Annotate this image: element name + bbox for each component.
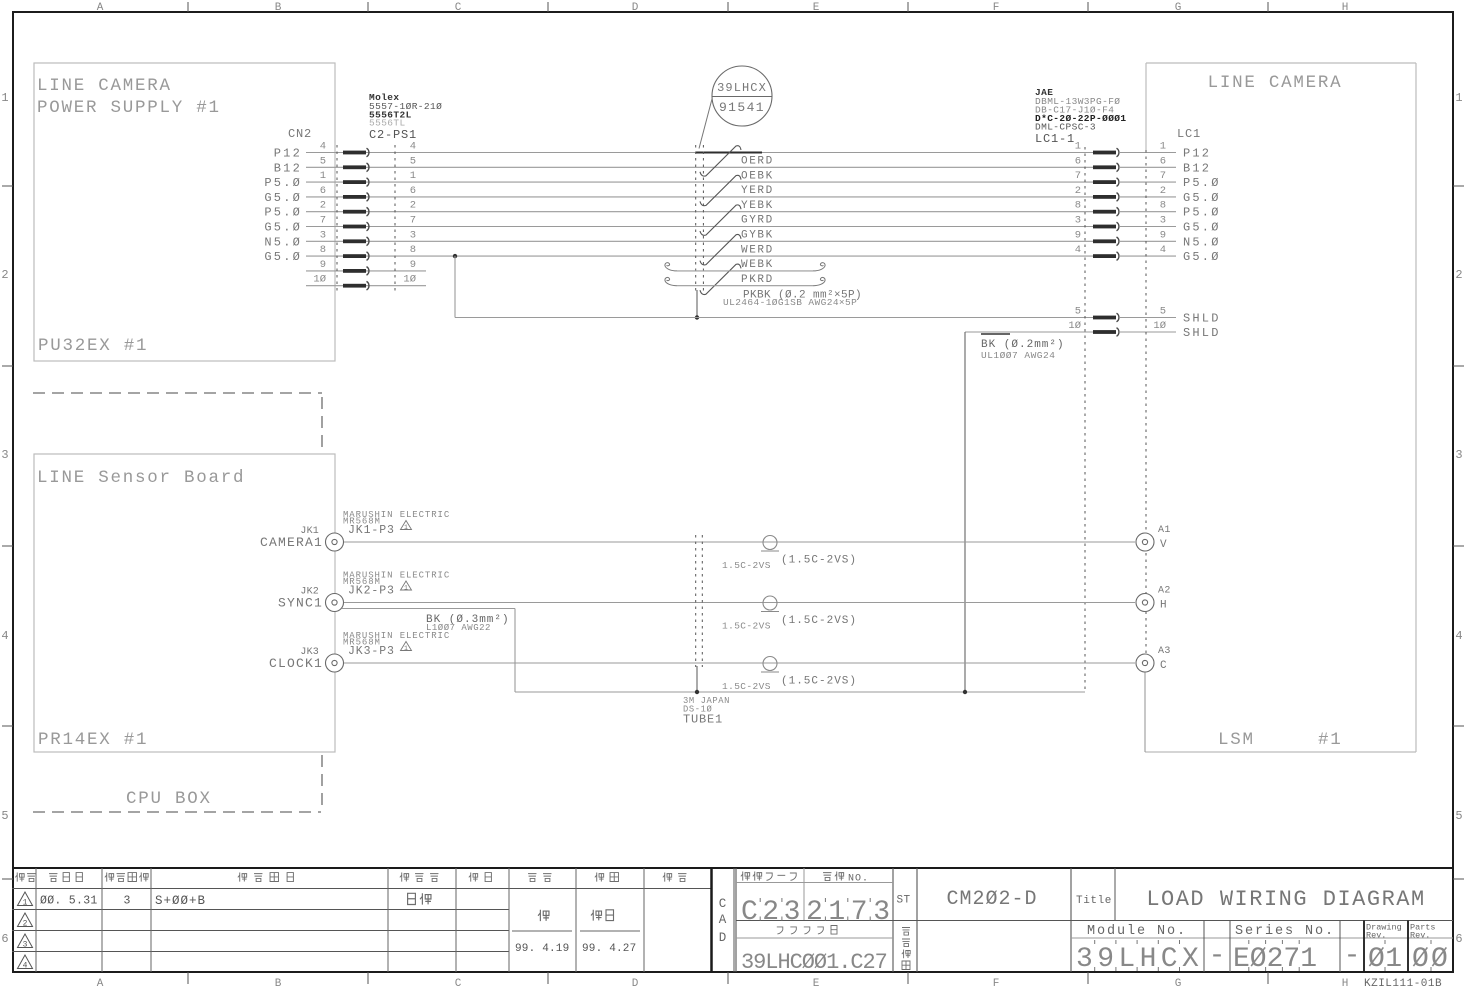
box LINE CAMERA POWER SUPPLY #1 (PU32EX): [34, 63, 335, 361]
field CM202-D id: [946, 888, 1037, 911]
title block revision table grid: [12, 868, 1453, 972]
svg-text:4: 4: [1, 629, 8, 643]
svg-text:B: B: [275, 2, 282, 14]
svg-text:(1.5C-2VS): (1.5C-2VS): [781, 555, 857, 567]
svg-text:5: 5: [410, 155, 416, 167]
svg-text:1Ø: 1Ø: [313, 274, 326, 286]
svg-text:GYRD: GYRD: [741, 215, 774, 227]
twisted pair mark 2: [700, 175, 741, 205]
svg-text:N5.Ø: N5.Ø: [1183, 235, 1221, 249]
wire row 8 C2-PS1 pin 8 G5.Ø: [264, 244, 1176, 264]
svg-text:C: C: [719, 897, 727, 911]
svg-text:2: 2: [1455, 268, 1462, 282]
twisted pair mark 5: [700, 264, 741, 294]
svg-text:G: G: [1175, 978, 1182, 988]
svg-text:S+ØØ+B: S+ØØ+B: [155, 894, 206, 908]
cable emphasis segment on wire 1: [696, 152, 762, 154]
svg-text:PKRD: PKRD: [741, 274, 774, 286]
connector C2-PS1 part labels (Molex): [369, 92, 442, 142]
wire row 6 C2-PS1 pin 7 G5.Ø: [264, 215, 1176, 235]
svg-text:P5.Ø: P5.Ø: [264, 206, 302, 220]
svg-text:2: 2: [410, 200, 416, 212]
coax connector A2 H: [1136, 586, 1171, 612]
svg-text:PU32EX #1: PU32EX #1: [38, 336, 148, 356]
svg-text:A: A: [719, 913, 727, 927]
svg-text:7: 7: [1160, 170, 1166, 182]
svg-text:D: D: [632, 2, 639, 14]
svg-text:7: 7: [320, 215, 326, 227]
svg-text:CPU BOX: CPU BOX: [126, 789, 212, 809]
svg-text:4: 4: [410, 141, 416, 153]
svg-text:91541: 91541: [719, 100, 765, 115]
svg-text:5: 5: [320, 155, 326, 167]
svg-text:C: C: [455, 2, 462, 14]
svg-text:8: 8: [410, 244, 416, 256]
balloon 39LHCX/91541 cable callout: [699, 66, 772, 149]
svg-text:1Ø: 1Ø: [1068, 320, 1081, 332]
svg-text:6: 6: [410, 185, 416, 197]
cable jacket dashed lines (upper): [696, 145, 704, 292]
svg-text:3: 3: [1, 448, 8, 462]
svg-text:SHLD: SHLD: [1183, 326, 1221, 340]
svg-text:2: 2: [23, 920, 28, 929]
svg-text:6: 6: [1075, 155, 1081, 167]
svg-text:LINE CAMERA: LINE CAMERA: [37, 76, 172, 96]
svg-text:99. 4.19: 99. 4.19: [515, 943, 569, 955]
svg-text:LINE Sensor Board: LINE Sensor Board: [37, 468, 245, 488]
revision markers (triangles 1-4): [18, 892, 33, 971]
form number KZIL111-01B: [1364, 978, 1442, 988]
svg-text:A1: A1: [1158, 525, 1171, 536]
svg-text:LC1-1: LC1-1: [1035, 132, 1075, 146]
svg-text:1: 1: [1075, 141, 1081, 153]
svg-text:5: 5: [1075, 306, 1081, 318]
svg-text:Module No.: Module No.: [1087, 924, 1187, 939]
svg-text:P12: P12: [274, 147, 302, 161]
svg-text:A2: A2: [1158, 586, 1171, 597]
unconnected wire PKBK span: [665, 277, 825, 285]
svg-text:ØØ. 5.31: ØØ. 5.31: [40, 895, 98, 908]
svg-text:Series No.: Series No.: [1235, 924, 1335, 939]
svg-text:1: 1: [23, 899, 28, 908]
svg-text:CM2Ø2-D: CM2Ø2-D: [946, 888, 1037, 911]
svg-text:ST: ST: [896, 895, 910, 907]
svg-text:(1.5C-2VS): (1.5C-2VS): [781, 676, 857, 688]
dash separator 1: [1209, 941, 1226, 972]
svg-text:UL2464-1ØG1SB AWG24×5P: UL2464-1ØG1SB AWG24×5P: [723, 297, 857, 308]
drawing rev 01: [1368, 940, 1402, 975]
LC1 pin 2 G5.Ø: [1075, 185, 1221, 205]
svg-text:1: 1: [1, 91, 8, 105]
shield ground wire from JK2: [342, 609, 1085, 693]
svg-text:4: 4: [1075, 244, 1081, 256]
svg-text:9: 9: [1075, 229, 1081, 241]
svg-text:LINE CAMERA: LINE CAMERA: [1208, 73, 1343, 93]
svg-text:WEBK: WEBK: [741, 259, 774, 271]
svg-text:TUBE1: TUBE1: [683, 713, 723, 727]
svg-text:JK1-P3: JK1-P3: [348, 524, 395, 537]
coax connector JK1 CAMERA1: [260, 510, 1135, 551]
series number E0271: [1233, 940, 1317, 975]
svg-text:SYNC1: SYNC1: [278, 596, 323, 611]
svg-text:9: 9: [410, 259, 416, 271]
parts rev 00: [1412, 940, 1450, 975]
LC1 pin 9 N5.Ø: [1075, 229, 1221, 249]
svg-text:5: 5: [1455, 809, 1462, 823]
svg-text:6: 6: [1, 932, 8, 946]
svg-text:C: C: [455, 978, 462, 988]
kanri number C232173: [741, 897, 896, 928]
svg-text:WERD: WERD: [741, 244, 774, 256]
svg-text:1.5C-2VS: 1.5C-2VS: [722, 681, 771, 692]
svg-text:5: 5: [1160, 306, 1166, 318]
svg-text:CLOCK1: CLOCK1: [269, 656, 323, 671]
svg-text:3: 3: [1075, 215, 1081, 227]
svg-text:CAMERA1: CAMERA1: [260, 535, 323, 550]
svg-text:1Ø: 1Ø: [1153, 320, 1166, 332]
svg-text:L1ØØ7 AWG22: L1ØØ7 AWG22: [426, 623, 491, 633]
svg-text:-: -: [1344, 941, 1361, 972]
svg-text:H: H: [1342, 978, 1349, 988]
CPU BOX dashed outline: [33, 393, 322, 812]
svg-text:1: 1: [404, 584, 408, 591]
svg-text:(1.5C-2VS): (1.5C-2VS): [781, 615, 857, 627]
Title label: [1076, 895, 1112, 907]
wire SHLD pin10 BK drain: [965, 320, 1221, 692]
svg-text:EØ271: EØ271: [1233, 944, 1317, 975]
svg-text:39LHCX: 39LHCX: [717, 81, 767, 95]
wire row 10 C2-PS1 pin 1Ø nc: [306, 274, 426, 290]
svg-text:1: 1: [320, 170, 326, 182]
cable jacket dashed lines (lower): [696, 535, 703, 667]
svg-text:P5.Ø: P5.Ø: [1183, 176, 1221, 190]
svg-text:2: 2: [320, 200, 326, 212]
svg-text:7: 7: [410, 215, 416, 227]
box LINE Sensor Board (PR14EX): [34, 454, 335, 752]
C2-PS1 housing dashed boundary: [337, 145, 395, 293]
connector LC1 label: [1177, 127, 1201, 141]
svg-text:2: 2: [1075, 185, 1081, 197]
svg-text:LOAD WIRING DIAGRAM: LOAD WIRING DIAGRAM: [1146, 887, 1425, 912]
wire row 9 C2-PS1 pin 9 nc: [306, 259, 426, 275]
svg-text:G5.Ø: G5.Ø: [264, 250, 302, 264]
title block headers (kanji): [15, 873, 686, 882]
wire row 2 C2-PS1 pin 5 B12: [274, 155, 1176, 175]
svg-text:G5.Ø: G5.Ø: [264, 191, 302, 205]
svg-text:A: A: [97, 978, 104, 988]
wire SHLD pin5 with G5.0 tie: [453, 254, 1221, 326]
LC1 pin 1 P12: [1075, 141, 1212, 161]
cable shield drain wire: [695, 290, 699, 320]
svg-text:F: F: [993, 2, 1000, 14]
LC1 pin 6 B12: [1075, 155, 1212, 175]
svg-text:P5.Ø: P5.Ø: [264, 176, 302, 190]
coax cable mark 1 (1.5C-2VS): [722, 536, 857, 572]
svg-text:Title: Title: [1076, 895, 1112, 907]
ST / koji-kiban column: [896, 895, 910, 970]
Drawing Rev header: [1366, 923, 1402, 941]
svg-text:A: A: [97, 2, 104, 14]
svg-text:OEBK: OEBK: [741, 170, 774, 182]
LC1 pin 3 G5.Ø: [1075, 215, 1221, 235]
svg-text:1.5C-2VS: 1.5C-2VS: [722, 560, 771, 571]
svg-text:1: 1: [1455, 91, 1462, 105]
svg-text:Rev.: Rev.: [1366, 931, 1386, 941]
wire row 3 C2-PS1 pin 1 P5.Ø: [264, 170, 1176, 190]
svg-text:SHLD: SHLD: [1183, 312, 1221, 326]
svg-text:P5.Ø: P5.Ø: [1183, 206, 1221, 220]
svg-text:6: 6: [1455, 932, 1462, 946]
header bukka-code / kanri no.: [741, 872, 869, 885]
svg-text:3: 3: [23, 941, 28, 950]
svg-text:3: 3: [124, 895, 131, 908]
svg-text:4: 4: [320, 141, 326, 153]
twisted pair mark 3: [700, 205, 741, 235]
coax cable mark 3 (1.5C-2VS): [722, 657, 857, 693]
box LINE CAMERA (right): [1145, 63, 1416, 752]
file name field: [741, 926, 887, 976]
connector CN2 label: [288, 127, 312, 141]
svg-text:N5.Ø: N5.Ø: [264, 235, 302, 249]
coax connector JK2 SYNC1: [278, 570, 1135, 611]
svg-text:G5.Ø: G5.Ø: [1183, 221, 1221, 235]
svg-text:UL1ØØ7 AWG24: UL1ØØ7 AWG24: [981, 350, 1055, 361]
wire row 4 C2-PS1 pin 6 G5.Ø: [264, 185, 1176, 205]
svg-text:LC1: LC1: [1177, 127, 1201, 141]
svg-text:B12: B12: [1183, 161, 1211, 175]
svg-text:2: 2: [1160, 185, 1166, 197]
cable wire color labels: [723, 156, 862, 309]
wire row 1 C2-PS1 pin 4 P12: [274, 141, 1176, 161]
svg-text:99. 4.27: 99. 4.27: [582, 943, 636, 955]
svg-text:H: H: [1342, 2, 1349, 14]
svg-text:8: 8: [320, 244, 326, 256]
svg-text:D: D: [632, 978, 639, 988]
svg-text:B12: B12: [274, 161, 302, 175]
svg-text:B: B: [275, 978, 282, 988]
twisted pair mark 4: [700, 234, 741, 264]
svg-text:8: 8: [1075, 200, 1081, 212]
svg-text:9: 9: [1160, 229, 1166, 241]
svg-text:NO.: NO.: [848, 874, 869, 885]
svg-text:3: 3: [410, 229, 416, 241]
coax connector JK3 CLOCK1: [269, 631, 1135, 672]
svg-text:6: 6: [1160, 155, 1166, 167]
svg-text:1: 1: [1160, 141, 1166, 153]
svg-text:H: H: [1160, 600, 1167, 612]
svg-text:A3: A3: [1158, 646, 1171, 657]
svg-text:E: E: [813, 2, 820, 14]
wire row 5 C2-PS1 pin 2 P5.Ø: [264, 200, 1176, 220]
svg-text:V: V: [1160, 539, 1167, 551]
svg-text:6: 6: [320, 185, 326, 197]
title LOAD WIRING DIAGRAM: [1146, 887, 1425, 912]
svg-text:D: D: [719, 931, 727, 945]
Module No. header: [1087, 924, 1187, 939]
svg-text:POWER SUPPLY #1: POWER SUPPLY #1: [37, 98, 221, 118]
svg-text:G5.Ø: G5.Ø: [1183, 250, 1221, 264]
svg-text:F: F: [993, 978, 1000, 988]
svg-text:8: 8: [1160, 200, 1166, 212]
svg-text:C: C: [1160, 660, 1167, 672]
label BK 0.2mm wire: [981, 334, 1065, 361]
svg-text:3: 3: [320, 229, 326, 241]
coax cable mark 2 (1.5C-2VS): [722, 596, 857, 632]
twisted pair mark 1: [700, 146, 741, 176]
coax connector A1 V: [1136, 525, 1171, 551]
cable jacket dashed lines (right): [1085, 147, 1146, 690]
svg-text:PR14EX #1: PR14EX #1: [38, 730, 148, 750]
svg-text:Rev.: Rev.: [1410, 931, 1430, 941]
svg-text:G5.Ø: G5.Ø: [1183, 191, 1221, 205]
svg-text:5: 5: [1, 809, 8, 823]
revision row 1 entries: [40, 893, 431, 908]
CAD strip: [719, 897, 727, 945]
svg-text:YEBK: YEBK: [741, 200, 774, 212]
svg-text:-: -: [1209, 941, 1226, 972]
svg-text:1: 1: [404, 524, 408, 531]
svg-text:5556TL: 5556TL: [369, 118, 406, 129]
label LSM #1: [1218, 730, 1343, 750]
svg-text:4: 4: [1160, 244, 1166, 256]
svg-text:OERD: OERD: [741, 156, 774, 168]
LC1 pin 7 P5.Ø: [1075, 170, 1221, 190]
svg-text:JK2-P3: JK2-P3: [348, 585, 395, 598]
svg-text:KZIL111-01B: KZIL111-01B: [1364, 978, 1442, 988]
dash separator 2: [1344, 941, 1361, 972]
Parts Rev header: [1410, 923, 1436, 941]
Series No. header: [1235, 924, 1335, 939]
svg-text:YERD: YERD: [741, 185, 774, 197]
svg-text:1: 1: [404, 645, 408, 652]
title block right grid: [736, 868, 1453, 972]
LC1 pin 8 P5.Ø: [1075, 200, 1221, 220]
svg-text:1Ø: 1Ø: [403, 274, 416, 286]
svg-text:39LHCØØ1.C27: 39LHCØØ1.C27: [741, 950, 887, 975]
svg-text:1.5C-2VS: 1.5C-2VS: [722, 621, 771, 632]
wire row 7 C2-PS1 pin 3 N5.Ø: [264, 229, 1176, 249]
module number 39LHCX: [1076, 940, 1203, 975]
svg-text:2173: 2173: [806, 897, 896, 928]
junction rail-BK: [963, 690, 967, 694]
coax connector A3 C: [1136, 646, 1171, 672]
svg-text:G5.Ø: G5.Ø: [264, 221, 302, 235]
svg-text:GYBK: GYBK: [741, 230, 774, 242]
svg-text:#1: #1: [1318, 730, 1343, 750]
svg-text:DML-CPSC-3: DML-CPSC-3: [1035, 122, 1096, 133]
svg-text:G: G: [1175, 2, 1182, 14]
svg-text:2: 2: [1, 268, 8, 282]
approval names and dates: [515, 910, 636, 955]
TUBE1 marker (3M JAPAN DS-10): [683, 666, 730, 727]
svg-text:C23: C23: [741, 897, 805, 928]
svg-text:3: 3: [1455, 448, 1462, 462]
svg-text:LSM: LSM: [1218, 730, 1255, 750]
svg-text:4: 4: [1455, 629, 1462, 643]
svg-text:7: 7: [1075, 170, 1081, 182]
LC1 pin 4 G5.Ø: [1075, 244, 1221, 264]
svg-text:9: 9: [320, 259, 326, 271]
unconnected wire PKRD span: [665, 263, 825, 271]
svg-text:P12: P12: [1183, 147, 1211, 161]
svg-text:JK3-P3: JK3-P3: [348, 645, 395, 658]
svg-text:3: 3: [1160, 215, 1166, 227]
svg-text:4: 4: [23, 962, 28, 971]
connector LC1 part labels (JAE): [1035, 87, 1127, 146]
svg-text:CN2: CN2: [288, 127, 312, 141]
svg-text:1: 1: [410, 170, 416, 182]
svg-text:E: E: [813, 978, 820, 988]
